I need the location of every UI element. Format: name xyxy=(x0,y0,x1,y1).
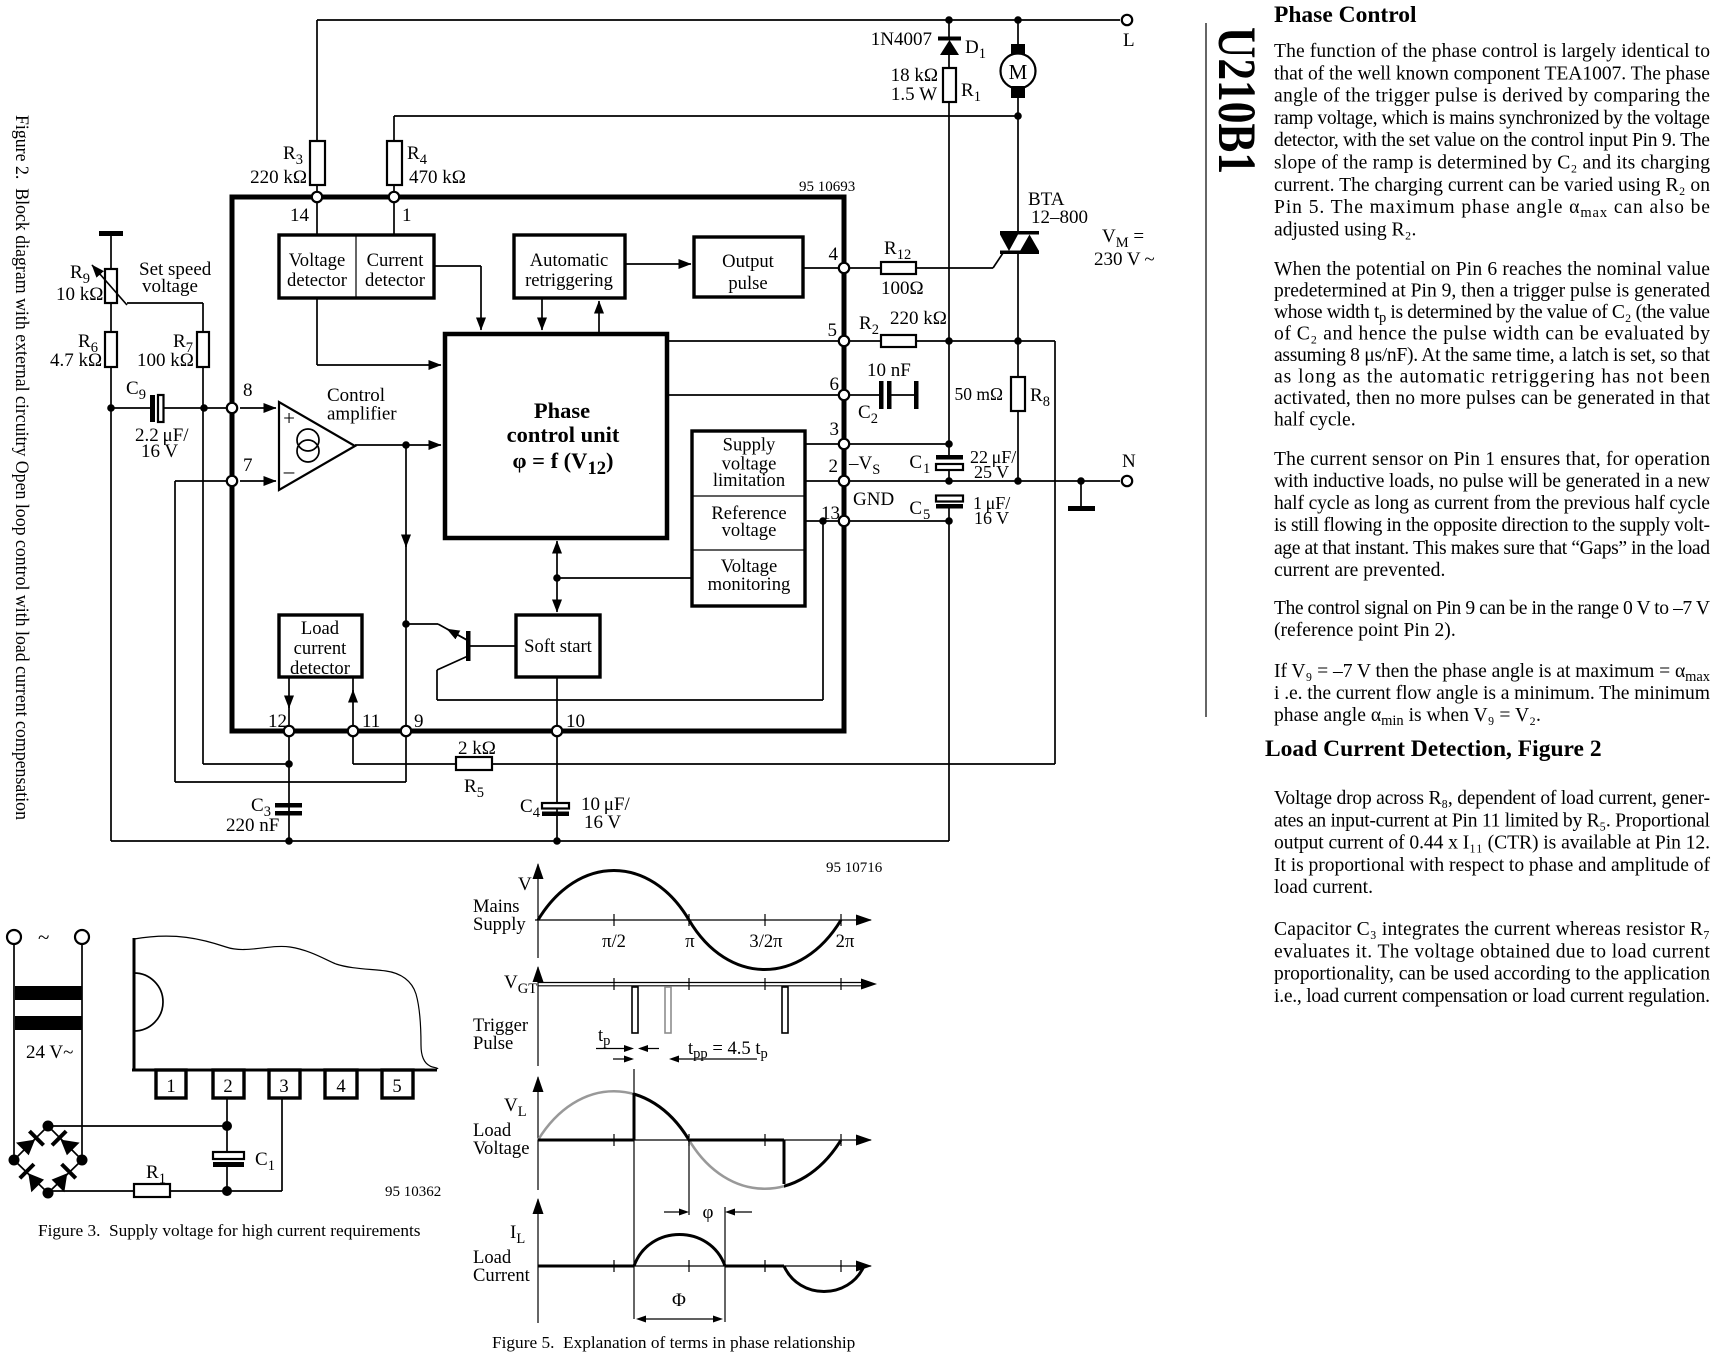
svg-text:angle of the trigger pulse is: angle of the trigger pulse is derived by… xyxy=(1274,86,1710,107)
svg-text:control unit: control unit xyxy=(507,422,620,447)
svg-text:4.7 kΩ: 4.7 kΩ xyxy=(50,350,102,371)
svg-text:age at that instant. This make: age at that instant. This makes sure tha… xyxy=(1274,538,1710,559)
svg-text:Automatic: Automatic xyxy=(530,250,609,271)
svg-text:13: 13 xyxy=(821,503,840,524)
svg-text:Supply: Supply xyxy=(723,435,776,456)
svg-text:9: 9 xyxy=(414,711,424,732)
svg-text:1: 1 xyxy=(166,1076,175,1097)
svg-text:N: N xyxy=(1122,451,1136,472)
svg-text:current. The charging current: current. The charging current can be var… xyxy=(1274,175,1710,196)
svg-text:16 V: 16 V xyxy=(974,508,1009,528)
svg-text:that of the well known compone: that of the well known component TEA1007… xyxy=(1274,63,1710,84)
svg-text:M: M xyxy=(1009,60,1028,84)
svg-text:220 nF: 220 nF xyxy=(226,815,279,836)
svg-text:assuming 8 μs/nF). At the same: assuming 8 μs/nF). At the same time, a l… xyxy=(1274,345,1711,366)
svg-text:5: 5 xyxy=(923,507,930,523)
svg-text:φ: φ xyxy=(703,1202,714,1223)
svg-text:5: 5 xyxy=(392,1076,401,1097)
svg-text:adjusted using R₂.: adjusted using R₂. xyxy=(1274,219,1416,240)
svg-text:V: V xyxy=(518,874,532,895)
svg-text:12: 12 xyxy=(268,711,287,732)
svg-text:Load Current Detection, Figure: Load Current Detection, Figure 2 xyxy=(1265,736,1602,762)
svg-text:retriggering: retriggering xyxy=(525,270,613,291)
svg-text:limitation: limitation xyxy=(713,470,786,491)
svg-text:95 10693: 95 10693 xyxy=(799,179,855,195)
svg-text:95 10362: 95 10362 xyxy=(385,1184,441,1200)
svg-text:voltage: voltage xyxy=(142,276,198,297)
svg-text:Output: Output xyxy=(722,251,774,272)
svg-text:U210B1: U210B1 xyxy=(1207,27,1267,174)
svg-text:output current of 0.44 x I₁₁ (: output current of 0.44 x I₁₁ (CTR) is av… xyxy=(1274,833,1710,854)
svg-text:The current sensor on Pin 1 en: The current sensor on Pin 1 ensures that… xyxy=(1274,449,1710,470)
svg-text:3: 3 xyxy=(279,1076,288,1097)
svg-text:i .e. the current flow angle i: i .e. the current flow angle is a minimu… xyxy=(1274,683,1710,704)
svg-text:π: π xyxy=(685,931,695,952)
svg-text:Pin 5. The maximum phase angle: Pin 5. The maximum phase angle αmax can … xyxy=(1274,197,1710,221)
svg-text:Φ: Φ xyxy=(672,1290,686,1311)
svg-text:2 kΩ: 2 kΩ xyxy=(458,738,496,759)
svg-text:slope of the ramp is determine: slope of the ramp is determined by C₂ an… xyxy=(1274,153,1710,174)
svg-text:voltage: voltage xyxy=(722,520,777,541)
svg-text:detector: detector xyxy=(287,270,348,291)
svg-text:14: 14 xyxy=(290,205,310,226)
svg-text:Phase: Phase xyxy=(534,398,590,423)
svg-text:Soft start: Soft start xyxy=(524,636,592,657)
svg-text:10 kΩ: 10 kΩ xyxy=(56,284,103,305)
svg-text:3/2π: 3/2π xyxy=(749,931,783,952)
svg-text:π/2: π/2 xyxy=(602,931,626,952)
svg-text:activated, then no more pulses: activated, then no more pulses can be ge… xyxy=(1274,388,1711,409)
svg-text:12–800: 12–800 xyxy=(1031,207,1088,228)
svg-text:The control signal on Pin 9 ca: The control signal on Pin 9 can be in th… xyxy=(1274,598,1710,619)
svg-text:If V₉ = –7 V then the phase an: If V₉ = –7 V then the phase angle is at … xyxy=(1274,661,1711,685)
svg-text:detector: detector xyxy=(365,270,426,291)
svg-text:pulse: pulse xyxy=(728,273,767,294)
svg-text:8: 8 xyxy=(243,380,253,401)
svg-text:470 kΩ: 470 kΩ xyxy=(409,167,466,188)
svg-text:current: current xyxy=(294,638,347,659)
svg-text:100 kΩ: 100 kΩ xyxy=(137,350,194,371)
svg-text:with inductive loads, no pulse: with inductive loads, no pulse will be g… xyxy=(1274,471,1711,492)
svg-text:Figure 3. Supply voltage for: Figure 3. Supply voltage for high curren… xyxy=(38,1221,421,1240)
svg-text:Figure 2. Block diagram with: Figure 2. Block diagram with external ci… xyxy=(11,115,32,820)
svg-text:Current: Current xyxy=(367,250,425,271)
svg-text:Figure 5. Explanation of term: Figure 5. Explanation of terms in phase … xyxy=(492,1333,855,1352)
svg-text:230 V ~: 230 V ~ xyxy=(1094,249,1155,270)
svg-text:16 V: 16 V xyxy=(584,812,621,833)
svg-text:of C₂ and hence the pulse widt: of C₂ and hence the pulse width can be e… xyxy=(1274,324,1710,345)
svg-text:4: 4 xyxy=(336,1076,345,1097)
svg-text:10: 10 xyxy=(566,711,585,732)
svg-text:predetermined at Pin 9, then a: predetermined at Pin 9, then a trigger p… xyxy=(1274,281,1710,302)
svg-text:phase angle αmin is when V₉ =: phase angle αmin is when V₉ = V₂. xyxy=(1274,705,1541,729)
svg-text:10 nF: 10 nF xyxy=(867,360,911,381)
svg-text:1: 1 xyxy=(923,461,930,477)
svg-text:i.e., load current compensatio: i.e., load current compensation or load … xyxy=(1274,986,1710,1007)
svg-text:C: C xyxy=(909,498,922,519)
svg-text:whose width tp is determined b: whose width tp is determined by the valu… xyxy=(1274,302,1710,326)
svg-text:11: 11 xyxy=(362,711,380,732)
svg-text:is still flowing in the opposi: is still flowing in the opposite directi… xyxy=(1274,515,1710,536)
svg-text:6: 6 xyxy=(830,374,840,395)
svg-text:as long as the automatic retri: as long as the automatic retriggering ha… xyxy=(1274,367,1710,388)
svg-text:16 V: 16 V xyxy=(141,441,178,462)
svg-text:proportionality, can be used a: proportionality, can be used according t… xyxy=(1274,964,1710,985)
svg-text:GND: GND xyxy=(853,489,894,510)
svg-text:detector, with the set value o: detector, with the set value on the cont… xyxy=(1274,130,1710,151)
svg-text:Voltage: Voltage xyxy=(473,1138,529,1159)
svg-text:220 kΩ: 220 kΩ xyxy=(890,308,947,329)
svg-text:monitoring: monitoring xyxy=(708,574,791,595)
svg-text:+: + xyxy=(283,406,295,430)
svg-text:Current: Current xyxy=(473,1265,531,1286)
svg-text:ates an input-current at Pin 1: ates an input-current at Pin 11 limited … xyxy=(1274,810,1711,831)
svg-text:half cycle.: half cycle. xyxy=(1274,410,1356,431)
svg-text:Supply: Supply xyxy=(473,914,526,935)
svg-text:When the potential on Pin 6 re: When the potential on Pin 6 reaches the … xyxy=(1274,259,1710,280)
svg-text:7: 7 xyxy=(243,455,253,476)
svg-text:3: 3 xyxy=(830,419,840,440)
svg-text:half cycle as long as current: half cycle as long as current from the p… xyxy=(1274,493,1710,514)
svg-text:18 kΩ: 18 kΩ xyxy=(891,65,938,86)
svg-text:24 V~: 24 V~ xyxy=(26,1042,73,1063)
svg-text:100Ω: 100Ω xyxy=(881,278,924,299)
svg-text:1.5 W: 1.5 W xyxy=(891,84,937,105)
svg-text:Voltage: Voltage xyxy=(289,250,345,271)
svg-text:It is proportional with respec: It is proportional with respect to phase… xyxy=(1274,855,1710,876)
svg-text:Capacitor C₃ integrates the cu: Capacitor C₃ integrates the current wher… xyxy=(1274,919,1710,940)
svg-text:220 kΩ: 220 kΩ xyxy=(250,167,307,188)
svg-text:Voltage drop across R₈, depend: Voltage drop across R₈, dependent of loa… xyxy=(1274,788,1710,809)
svg-text:Phase Control: Phase Control xyxy=(1274,2,1417,28)
svg-text:25 V: 25 V xyxy=(974,462,1009,482)
svg-text:2: 2 xyxy=(829,456,839,477)
svg-text:C: C xyxy=(909,452,922,473)
svg-text:ramp voltage, which is mains s: ramp voltage, which is mains synchronize… xyxy=(1274,108,1710,129)
svg-text:load current.: load current. xyxy=(1274,877,1373,898)
svg-text:amplifier: amplifier xyxy=(327,404,397,425)
svg-text:50 mΩ: 50 mΩ xyxy=(955,384,1004,404)
svg-text:L: L xyxy=(1123,30,1135,51)
svg-text:2π: 2π xyxy=(836,931,855,952)
svg-text:Load: Load xyxy=(301,618,340,639)
svg-text:95 10716: 95 10716 xyxy=(826,860,883,876)
svg-text:1N4007: 1N4007 xyxy=(871,29,932,50)
svg-text:1: 1 xyxy=(402,205,412,226)
svg-text:~: ~ xyxy=(38,925,49,949)
svg-text:current are prevented.: current are prevented. xyxy=(1274,560,1445,581)
svg-text:detector: detector xyxy=(290,658,351,679)
svg-text:The function of the phase cont: The function of the phase control is lar… xyxy=(1274,41,1710,62)
svg-text:–: – xyxy=(283,459,295,483)
svg-text:4: 4 xyxy=(829,244,839,265)
svg-text:5: 5 xyxy=(828,320,838,341)
svg-text:2: 2 xyxy=(223,1076,232,1097)
svg-text:(reference point Pin 2).: (reference point Pin 2). xyxy=(1274,620,1456,641)
svg-text:evaluates it. The voltage obta: evaluates it. The voltage obtained due t… xyxy=(1274,941,1711,962)
svg-text:Pulse: Pulse xyxy=(473,1033,513,1054)
